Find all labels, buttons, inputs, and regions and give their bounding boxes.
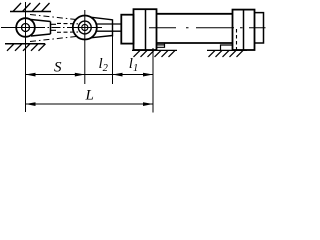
L arrow left bbox=[26, 102, 36, 106]
pivot vertical centerline / extension line bbox=[25, 2, 27, 112]
shoulder extension line down bbox=[112, 37, 114, 85]
front port bracket bbox=[157, 43, 165, 47]
rod hidden top dashed bbox=[57, 22, 78, 24]
cylinder centerline bbox=[149, 27, 266, 29]
rear ground hatches bbox=[209, 50, 244, 57]
front ground hatches bbox=[134, 50, 176, 57]
front flange divider bbox=[145, 9, 147, 50]
bottom ground hatches bbox=[7, 44, 46, 51]
pivot horizontal centerline bbox=[1, 27, 41, 29]
piston rod top line bbox=[96, 23, 122, 25]
dimension line row 2 (L) bbox=[26, 103, 154, 105]
rear hidden dashed vertical bbox=[236, 29, 238, 52]
centerline between clevis and eye bbox=[36, 27, 70, 29]
front flange bbox=[134, 9, 157, 50]
bottom ground line bbox=[5, 43, 45, 45]
rod eye bore circle bbox=[78, 21, 91, 34]
rear end cap bbox=[255, 13, 264, 43]
clevis tongue bbox=[51, 24, 57, 30]
rod eye horizontal centerline bbox=[70, 27, 102, 29]
rear flange bbox=[233, 10, 255, 50]
rear port bracket bbox=[221, 45, 233, 50]
arrow left at pivot bbox=[26, 73, 36, 77]
rod end block bbox=[121, 15, 133, 44]
shoulder vertical bbox=[112, 19, 114, 36]
rear flange divider bbox=[243, 10, 245, 50]
front ground line bbox=[132, 49, 177, 51]
piston rod bottom line bbox=[96, 30, 122, 32]
arrow right at ext4 bbox=[143, 73, 153, 77]
pivot outer circle bbox=[16, 18, 35, 37]
top ground hatches bbox=[13, 3, 50, 12]
rod hidden bottom dashed bbox=[57, 31, 78, 33]
L arrow right bbox=[143, 102, 153, 106]
rear ground line bbox=[207, 49, 247, 51]
barrel top line bbox=[157, 13, 233, 15]
top ground line bbox=[10, 11, 51, 13]
pivot pin circle bbox=[22, 24, 30, 32]
phantom top dashed line bbox=[30, 15, 76, 20]
arrow left at shoulder ext bbox=[113, 73, 123, 77]
phantom bottom dashed line bbox=[30, 37, 76, 42]
rod eye outer circle bbox=[73, 16, 97, 40]
rod eye vertical centerline / extension line bbox=[84, 10, 86, 84]
rod eye pin circle bbox=[82, 24, 88, 30]
clevis body bbox=[31, 20, 51, 37]
arrow right at eye ext bbox=[75, 73, 85, 77]
svg-text:S: S bbox=[54, 60, 62, 76]
eye taper to shoulder bbox=[91, 17, 113, 38]
svg-text:L: L bbox=[85, 88, 94, 104]
extension line 4 bbox=[152, 48, 154, 113]
dimension line row 1 bbox=[26, 74, 154, 76]
barrel bottom line bbox=[157, 42, 233, 44]
